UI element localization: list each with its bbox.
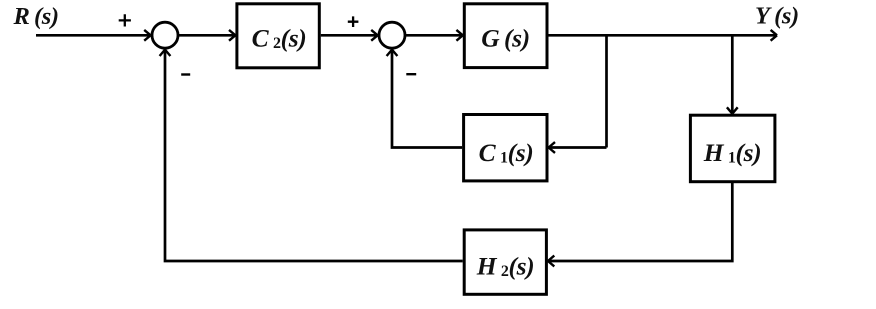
label Y(s): [755, 2, 799, 29]
summing junction S1: [152, 22, 178, 48]
svg-text:G (s): G (s): [481, 23, 529, 52]
svg-text:H 1(s): H 1(s): [703, 138, 761, 167]
label C1(s): [479, 138, 534, 167]
node branch to C1: [605, 35, 608, 147]
wire H2 to summer S1: [165, 51, 463, 262]
svg-text:R (s): R (s): [13, 3, 59, 30]
arrowhead into H2: [548, 256, 554, 267]
wire input to summer S1: [36, 34, 150, 37]
arrowhead into S1 bottom: [160, 50, 171, 56]
node branch to H1: [731, 35, 734, 113]
arrowhead into S1: [144, 30, 150, 41]
block H2(s): [464, 230, 546, 294]
svg-text:C 1(s): C 1(s): [479, 138, 534, 167]
minus sign at summer S1: [181, 73, 190, 75]
arrowhead into S2 bottom: [387, 50, 398, 56]
arrowhead into H1 top: [727, 107, 738, 113]
wire G to output Y: [549, 34, 776, 37]
plus sign at summer S1: [119, 14, 131, 26]
block G(s): [464, 4, 547, 68]
wire S2 to G: [405, 34, 462, 37]
block C2(s): [237, 4, 319, 68]
label H2(s): [476, 251, 534, 280]
arrowhead into C2: [229, 30, 235, 41]
label R(s): [13, 3, 59, 30]
arrowhead into G: [456, 30, 462, 41]
arrowhead into C1: [549, 142, 555, 153]
label G(s): [481, 23, 529, 52]
summing junction S2: [379, 22, 405, 48]
wire C2 to summer S2: [321, 34, 377, 37]
arrowhead at output Y: [771, 30, 777, 41]
arrowhead into S2: [371, 30, 377, 41]
block H1(s): [690, 115, 775, 182]
wire branch to C1: [550, 146, 607, 149]
block C1(s): [464, 115, 547, 181]
wire H1 to H2: [549, 183, 732, 261]
svg-text:Y (s): Y (s): [755, 2, 799, 29]
minus sign at summer S2: [406, 73, 416, 75]
wire C1 to summer S2: [392, 51, 462, 148]
svg-text:C 2(s): C 2(s): [252, 23, 307, 52]
label H1(s): [703, 138, 761, 167]
label C2(s): [252, 23, 307, 52]
plus sign at summer S2: [348, 16, 359, 27]
wire S1 to C2: [178, 34, 234, 37]
svg-text:H 2(s): H 2(s): [476, 251, 534, 280]
